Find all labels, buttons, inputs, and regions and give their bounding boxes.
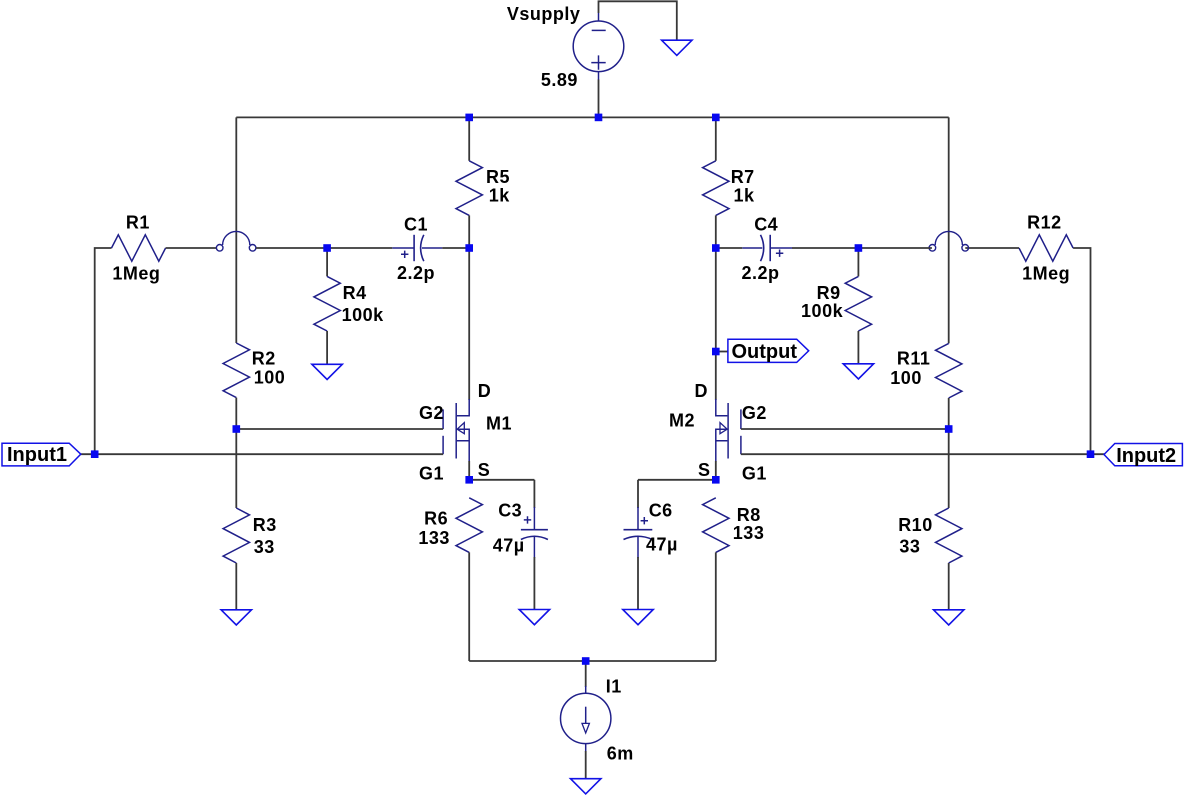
Vsupply top lead [598, 13, 600, 21]
node M2 source [712, 476, 720, 484]
wire R10 to ground [948, 563, 950, 610]
transistor M2 gate2 lead [740, 409, 742, 429]
wire left column top (bus to R2) [235, 117, 237, 343]
wire C6 to ground [637, 557, 639, 610]
svg-text:C1: C1 [404, 214, 428, 234]
resistor R1 [112, 235, 166, 261]
svg-text:5.89: 5.89 [541, 70, 578, 90]
wire hop over left column [216, 245, 223, 252]
capacitor C1 [413, 235, 415, 261]
capacitor C6 [637, 507, 639, 530]
wire G2 row left [236, 428, 443, 430]
svg-text:Output: Output [732, 341, 798, 363]
svg-text:S: S [478, 460, 491, 480]
transistor M1 body arrow [457, 423, 464, 434]
wire C6 top lead [637, 480, 639, 508]
resistor R8 [703, 498, 729, 553]
node bottom-I1 [582, 657, 590, 665]
node bus-R7 [712, 114, 720, 122]
wire Output stub [716, 351, 728, 353]
resistor R2 [223, 343, 249, 398]
Vsupply plus sign [591, 55, 605, 69]
node M1 source [465, 476, 473, 484]
wire R9 top lead [857, 248, 859, 276]
svg-text:G1: G1 [742, 464, 767, 484]
svg-text:Vsupply: Vsupply [507, 4, 581, 24]
svg-text:R10: R10 [898, 515, 933, 535]
svg-text:G1: G1 [419, 464, 444, 484]
svg-text:33: 33 [899, 537, 920, 557]
svg-text:R2: R2 [252, 349, 276, 369]
transistor M1 source path [457, 429, 469, 462]
resistor R10 [936, 508, 962, 563]
ground C3 [519, 610, 549, 625]
svg-text:R5: R5 [486, 167, 510, 187]
wire R3 to ground [235, 563, 237, 610]
wire bottom bus [469, 660, 716, 662]
svg-text:D: D [478, 381, 492, 401]
node Output [712, 348, 720, 356]
svg-text:33: 33 [254, 537, 275, 557]
transistor M2 gate1 lead [740, 436, 742, 454]
svg-text:G2: G2 [419, 403, 444, 423]
node bus-Vsupply [595, 114, 603, 122]
ground R9 [843, 364, 873, 379]
wire R12 to hop [965, 247, 1019, 249]
wire C3 to ground [533, 557, 535, 610]
svg-text:R4: R4 [343, 283, 367, 303]
transistor M1 drain lead [457, 399, 469, 416]
wire C3 top lead [533, 480, 535, 508]
resistor R9 [845, 276, 871, 331]
C6 plus polarity [641, 517, 648, 524]
wire R2 to junction and R3 [235, 398, 237, 508]
wire bus to R5 [468, 117, 470, 160]
wire R1 to hop [166, 247, 217, 249]
transistor M1 gate bar [455, 403, 457, 459]
wire I1 to ground [585, 751, 587, 779]
wire left rail corner [95, 248, 112, 454]
transistor M1 gate2 lead [442, 409, 444, 429]
Vsupply minus sign [592, 29, 606, 31]
ground R10 [934, 610, 964, 625]
svg-text:133: 133 [418, 528, 450, 548]
wire Vsupply top bend [599, 1, 677, 40]
wire drain M1 [468, 248, 470, 400]
resistor R6 [456, 498, 482, 553]
wire R7 to drain junction [715, 215, 717, 248]
wire drain M2 [715, 248, 717, 400]
node bus-R5 [465, 114, 473, 122]
flag Input2 [1104, 444, 1182, 466]
capacitor C4 [769, 235, 771, 261]
svg-text:100k: 100k [801, 301, 844, 321]
wire source row to C6 [638, 479, 716, 481]
svg-text:R3: R3 [253, 515, 277, 535]
svg-text:2.2p: 2.2p [742, 263, 780, 283]
resistor R3 [223, 508, 249, 563]
C3 plus polarity [524, 516, 531, 523]
C1 plus polarity [401, 251, 408, 258]
svg-text:I1: I1 [606, 676, 622, 696]
svg-text:47µ: 47µ [646, 534, 678, 554]
wire R9 to ground [857, 331, 859, 364]
svg-text:D: D [695, 381, 709, 401]
svg-text:R11: R11 [897, 349, 931, 369]
voltage source Vsupply U-circle [573, 21, 624, 72]
wire hop over right column [929, 245, 936, 252]
svg-text:R8: R8 [737, 505, 761, 525]
svg-text:M2: M2 [669, 410, 695, 430]
svg-text:1Meg: 1Meg [112, 263, 160, 283]
resistor R4 [314, 276, 340, 331]
wire top supply bus [236, 116, 948, 118]
wire R8 to bottom bus [715, 552, 717, 661]
node C1-R5-drain [465, 244, 473, 252]
svg-text:47µ: 47µ [493, 536, 525, 556]
current source I1 [561, 693, 611, 743]
flag Output [728, 339, 809, 362]
svg-text:R12: R12 [1027, 213, 1062, 233]
ground R3 [221, 610, 251, 625]
svg-text:R6: R6 [424, 508, 448, 528]
wire R5 to drain junction [468, 215, 470, 248]
svg-text:1k: 1k [489, 186, 511, 206]
svg-text:100k: 100k [342, 305, 385, 325]
resistor R5 [456, 161, 482, 216]
svg-text:133: 133 [733, 523, 765, 543]
wire C1 to drain junction [442, 247, 469, 249]
svg-text:Input2: Input2 [1116, 445, 1176, 467]
svg-text:C6: C6 [649, 501, 673, 521]
wire I1 top lead [585, 661, 587, 687]
node R2-G2 [233, 425, 241, 433]
svg-text:6m: 6m [607, 743, 634, 763]
svg-text:Input1: Input1 [7, 444, 67, 466]
node R11-G2 [945, 425, 953, 433]
wire C4 to hop [792, 247, 932, 249]
Vsupply bottom lead [598, 72, 600, 80]
I1 arrow [585, 707, 587, 724]
resistor R12 [1019, 235, 1073, 261]
svg-text:G2: G2 [742, 403, 767, 423]
ground C6 [623, 610, 653, 625]
C4 plus polarity [776, 250, 783, 257]
transistor M2 gate bar [727, 403, 729, 459]
svg-text:2.2p: 2.2p [397, 263, 435, 283]
svg-text:S: S [698, 460, 711, 480]
transistor M2 drain lead [716, 399, 728, 416]
svg-text:R1: R1 [126, 213, 150, 233]
flag Input1 [2, 443, 81, 466]
ground Vsupply [662, 40, 692, 55]
wire R11 to junction and R10 [948, 398, 950, 508]
node C4-R7-drain [712, 244, 720, 252]
svg-text:C3: C3 [498, 500, 522, 520]
capacitor C3 [533, 507, 535, 530]
node R9 top [855, 244, 863, 252]
node R4 top [323, 244, 331, 252]
transistor M2 body arrow [720, 423, 727, 434]
svg-text:100: 100 [254, 368, 286, 388]
svg-text:R7: R7 [731, 167, 755, 187]
wire M1 source [468, 461, 470, 480]
wire M2 source [715, 461, 717, 480]
wire Input1 row [81, 453, 443, 455]
wire hop to C1 [256, 247, 392, 249]
svg-text:R9: R9 [817, 283, 841, 303]
transistor M2 source path [716, 429, 728, 462]
wire source row to C3 [469, 479, 534, 481]
wire bus to R7 [715, 117, 717, 160]
wire R4 to ground [326, 331, 328, 364]
wire G2 row right [741, 428, 949, 430]
svg-text:1Meg: 1Meg [1022, 263, 1070, 283]
ground R4 [312, 364, 342, 379]
wire Vsupply to bus [598, 80, 600, 118]
resistor R11 [936, 343, 962, 398]
node Input2 [1087, 450, 1095, 458]
svg-text:C4: C4 [754, 214, 778, 234]
wire right rail corner [1073, 248, 1090, 454]
ground I1 [571, 779, 601, 794]
svg-text:M1: M1 [486, 413, 512, 433]
node Input1 [91, 450, 99, 458]
svg-text:1k: 1k [734, 186, 756, 206]
wire right column top (bus to R11) [948, 117, 950, 343]
wire drain junction to C4 [716, 247, 742, 249]
wire Input2 row [741, 453, 1105, 455]
I1 bottom lead [585, 744, 587, 752]
resistor R7 [703, 161, 729, 216]
transistor M1 gate1 lead [442, 436, 444, 454]
wire R4 top lead [326, 248, 328, 276]
wire R6 to bottom bus [468, 552, 470, 661]
svg-text:100: 100 [890, 368, 922, 388]
